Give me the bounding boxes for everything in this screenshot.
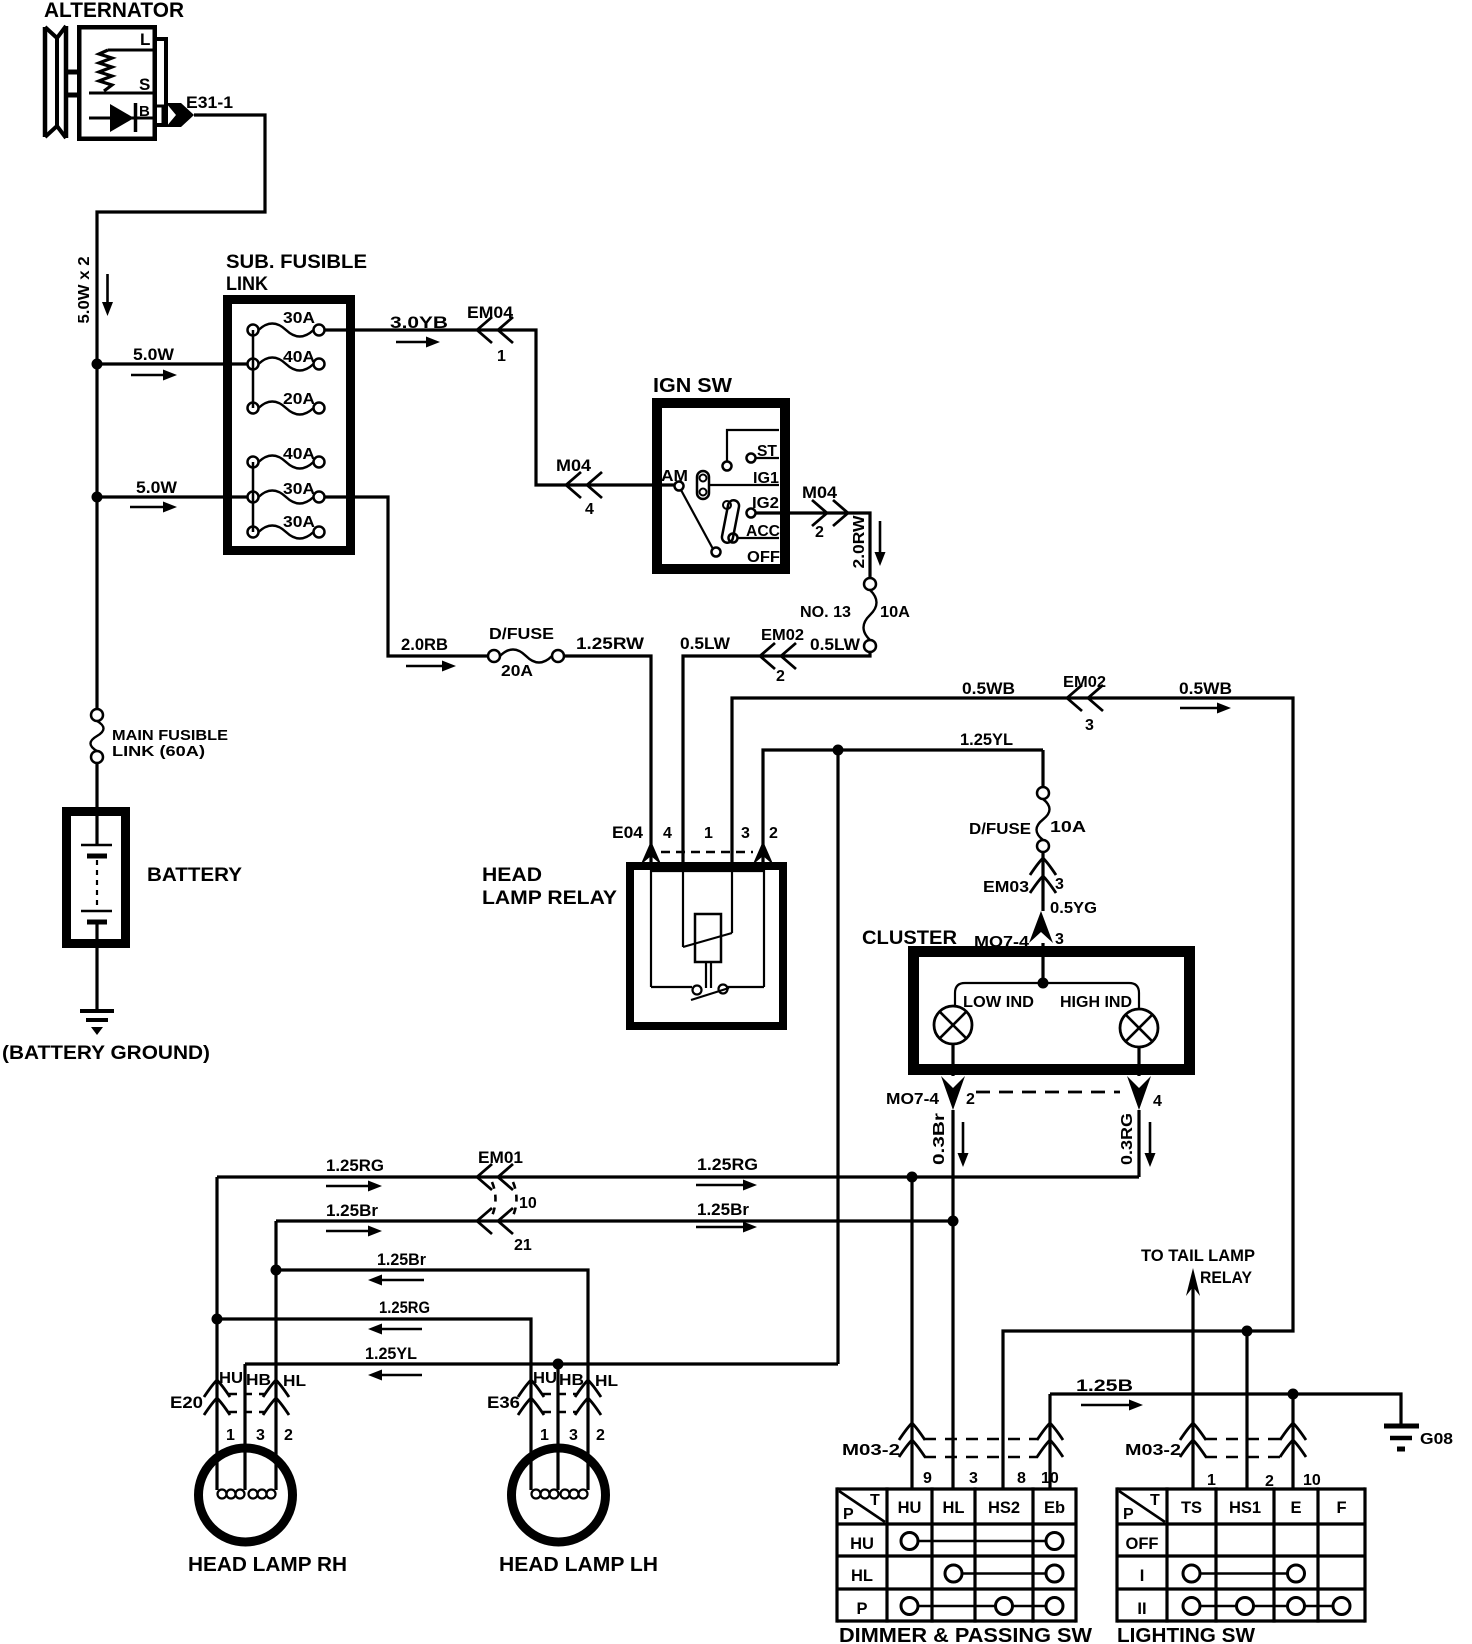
svg-text:MAIN FUSIBLE: MAIN FUSIBLE [112,727,228,744]
svg-text:4: 4 [585,501,594,518]
svg-text:0.3Br: 0.3Br [931,1113,948,1165]
svg-text:1.25RG: 1.25RG [697,1155,758,1174]
svg-text:HL: HL [943,1499,965,1517]
svg-text:1: 1 [704,825,713,842]
svg-text:NO. 13: NO. 13 [800,604,851,621]
svg-text:2: 2 [776,668,785,685]
svg-text:3: 3 [569,1427,578,1444]
svg-text:IGN SW: IGN SW [653,375,732,397]
svg-text:30A: 30A [283,514,315,531]
svg-text:HU: HU [533,1370,557,1387]
svg-text:0.5YG: 0.5YG [1050,900,1097,917]
svg-text:10: 10 [1303,1472,1321,1489]
svg-text:AM: AM [661,468,688,485]
svg-text:MO7-4: MO7-4 [886,1091,939,1108]
svg-text:D/FUSE: D/FUSE [969,821,1031,838]
svg-text:0.5WB: 0.5WB [962,679,1015,698]
svg-text:HB: HB [559,1372,584,1389]
svg-text:5.0W x 2: 5.0W x 2 [76,256,93,323]
svg-text:ST: ST [757,443,777,460]
svg-text:E04: E04 [612,823,644,842]
svg-text:M03-2: M03-2 [842,1442,900,1459]
svg-text:T: T [870,1492,880,1509]
svg-text:10A: 10A [1050,819,1087,836]
svg-text:TS: TS [1181,1499,1202,1517]
svg-text:EM02: EM02 [1063,674,1106,691]
svg-text:I: I [1140,1567,1145,1585]
svg-text:LINK: LINK [226,274,268,295]
svg-text:EM04: EM04 [467,303,514,322]
svg-text:1: 1 [1207,1472,1216,1489]
svg-text:0.5LW: 0.5LW [810,635,861,654]
svg-text:G08: G08 [1420,1431,1453,1448]
svg-text:1.25YL: 1.25YL [960,730,1013,749]
svg-text:HEAD: HEAD [482,865,542,886]
svg-text:HL: HL [851,1567,873,1585]
svg-text:0.5LW: 0.5LW [680,634,731,653]
svg-text:T: T [1150,1492,1160,1509]
svg-text:10A: 10A [880,604,910,621]
svg-text:ACC: ACC [746,523,780,540]
svg-text:5.0W: 5.0W [133,345,175,364]
svg-text:9: 9 [923,1470,932,1487]
svg-text:E20: E20 [170,1393,203,1412]
svg-text:HB: HB [246,1372,271,1389]
svg-text:Eb: Eb [1044,1499,1065,1517]
svg-text:3.0YB: 3.0YB [390,313,448,332]
svg-text:EM02: EM02 [761,627,804,644]
svg-text:1.25Br: 1.25Br [377,1250,426,1269]
svg-text:21: 21 [514,1237,532,1254]
svg-text:1.25Br: 1.25Br [326,1201,378,1220]
svg-text:10: 10 [519,1195,537,1212]
svg-text:2: 2 [769,825,778,842]
svg-text:2.0RB: 2.0RB [401,635,448,654]
svg-text:HS1: HS1 [1229,1499,1261,1517]
svg-text:E: E [1290,1499,1301,1517]
svg-text:2.0RW: 2.0RW [851,515,868,569]
svg-text:DIMMER & PASSING SW: DIMMER & PASSING SW [839,1625,1092,1644]
svg-text:IG2: IG2 [752,495,779,512]
svg-text:0.5WB: 0.5WB [1179,679,1232,698]
svg-text:(BATTERY GROUND): (BATTERY GROUND) [2,1043,210,1064]
svg-text:HS2: HS2 [988,1499,1020,1517]
svg-text:ALTERNATOR: ALTERNATOR [44,0,184,22]
svg-text:4: 4 [663,825,672,842]
svg-text:P: P [843,1506,854,1523]
svg-text:2: 2 [284,1427,293,1444]
svg-text:40A: 40A [283,446,315,463]
svg-text:B: B [139,103,150,120]
svg-text:LOW IND: LOW IND [963,994,1034,1011]
svg-text:0.3RG: 0.3RG [1119,1113,1136,1165]
svg-text:L: L [140,30,150,49]
svg-text:BATTERY: BATTERY [147,865,242,886]
svg-text:E31-1: E31-1 [186,93,233,112]
svg-text:CLUSTER: CLUSTER [862,928,957,949]
svg-text:1.25YL: 1.25YL [365,1344,417,1363]
svg-text:S: S [139,75,150,94]
svg-text:P: P [856,1600,867,1618]
svg-text:2: 2 [966,1091,975,1108]
svg-text:HU: HU [219,1370,243,1387]
svg-text:8: 8 [1017,1470,1026,1487]
svg-text:3: 3 [969,1470,978,1487]
svg-text:OFF: OFF [747,549,780,566]
svg-text:EM03: EM03 [983,879,1029,896]
svg-text:SUB. FUSIBLE: SUB. FUSIBLE [226,252,367,273]
svg-text:F: F [1336,1499,1346,1517]
svg-text:30A: 30A [283,310,315,327]
svg-text:M04: M04 [556,456,592,475]
svg-text:4: 4 [1153,1093,1162,1110]
svg-text:TO TAIL LAMP: TO TAIL LAMP [1141,1247,1255,1265]
svg-text:HEAD LAMP LH: HEAD LAMP LH [499,1554,658,1576]
svg-text:E36: E36 [487,1393,520,1412]
svg-text:40A: 40A [283,349,315,366]
svg-text:M03-2: M03-2 [1125,1442,1181,1459]
svg-text:1.25Br: 1.25Br [697,1200,749,1219]
svg-text:P: P [1123,1506,1134,1523]
svg-text:II: II [1137,1600,1146,1618]
svg-text:1.25B: 1.25B [1076,1376,1133,1395]
svg-text:1.25RG: 1.25RG [379,1298,430,1317]
svg-text:3: 3 [741,825,750,842]
svg-text:OFF: OFF [1126,1535,1159,1553]
svg-text:LINK (60A): LINK (60A) [112,743,205,760]
svg-text:D/FUSE: D/FUSE [489,626,554,643]
svg-text:2: 2 [815,524,824,541]
svg-text:EM01: EM01 [478,1148,523,1167]
svg-text:HIGH IND: HIGH IND [1060,994,1132,1011]
svg-text:HU: HU [850,1535,874,1553]
svg-text:5.0W: 5.0W [136,478,178,497]
svg-text:HU: HU [898,1499,922,1517]
svg-text:1: 1 [540,1427,549,1444]
svg-text:1.25RW: 1.25RW [576,634,645,653]
svg-text:1: 1 [497,348,506,365]
svg-text:M04: M04 [802,483,838,502]
svg-text:RELAY: RELAY [1200,1269,1252,1287]
svg-text:1.25RG: 1.25RG [326,1156,384,1175]
svg-text:30A: 30A [283,481,315,498]
svg-text:IG1: IG1 [753,470,779,487]
svg-text:3: 3 [1055,876,1064,893]
svg-text:LAMP RELAY: LAMP RELAY [482,888,617,909]
svg-text:3: 3 [1055,931,1064,948]
svg-text:3: 3 [1085,717,1094,734]
svg-text:HEAD LAMP RH: HEAD LAMP RH [188,1554,347,1576]
svg-text:3: 3 [256,1427,265,1444]
svg-text:20A: 20A [283,391,315,408]
svg-text:2: 2 [596,1427,605,1444]
svg-text:HL: HL [283,1373,306,1390]
svg-text:1: 1 [226,1427,235,1444]
svg-text:HL: HL [595,1373,618,1390]
svg-text:LIGHTING SW: LIGHTING SW [1117,1625,1255,1644]
svg-text:10: 10 [1041,1470,1059,1487]
svg-text:20A: 20A [501,663,533,680]
